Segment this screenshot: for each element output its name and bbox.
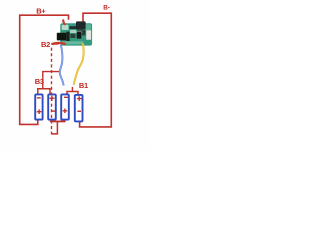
small dark bits: [70, 34, 75, 38]
white component on board right: [82, 31, 86, 36]
polarity minus cell 2: [51, 110, 55, 112]
yellow sense wire: [74, 43, 84, 85]
svg-text:B-: B-: [103, 4, 110, 11]
svg-text:B+: B+: [36, 6, 46, 15]
dark component bar: [69, 26, 76, 29]
wire B2 to board: [52, 43, 59, 45]
battery cell 4: [75, 95, 83, 122]
dark component right of MOSFET: [66, 32, 69, 41]
wire B2 tap (dashed): [51, 48, 53, 134]
BMS protection board: [60, 23, 92, 45]
red solder wire on board (B+ pad): [63, 20, 64, 24]
polarity minus cell 3: [64, 96, 68, 98]
wire B2 tap bottom hook: [51, 121, 58, 134]
wire B+ rail: [20, 15, 69, 124]
polarity plus cell 4: [77, 96, 82, 101]
battery cell 1: [35, 94, 42, 119]
polarity plus cell 1: [37, 109, 42, 114]
dark chip: [77, 32, 82, 39]
wire B1 tap stub: [71, 87, 73, 92]
polarity minus cell 1: [37, 97, 41, 99]
battery cell 3: [61, 94, 69, 119]
polarity minus cell 4: [77, 110, 81, 112]
wire series link bottom cells 2-3: [52, 120, 65, 121]
wire series link top cells 1-2: [38, 89, 50, 94]
battery cell 2: [48, 94, 56, 119]
polarity plus cell 2: [49, 96, 54, 101]
wire B3 tap: [43, 72, 59, 89]
red solder wire on board (B2 pad, going left): [52, 42, 65, 45]
blue sense wire: [60, 45, 64, 86]
wire series link top cells 3-4: [67, 92, 78, 95]
connector on board top: [76, 21, 86, 29]
wire B- rail: [80, 13, 112, 127]
polarity plus cell 3: [63, 109, 68, 114]
svg-text:B2: B2: [41, 40, 50, 49]
MOSFET on board: [57, 33, 67, 41]
svg-text:B1: B1: [79, 81, 88, 90]
